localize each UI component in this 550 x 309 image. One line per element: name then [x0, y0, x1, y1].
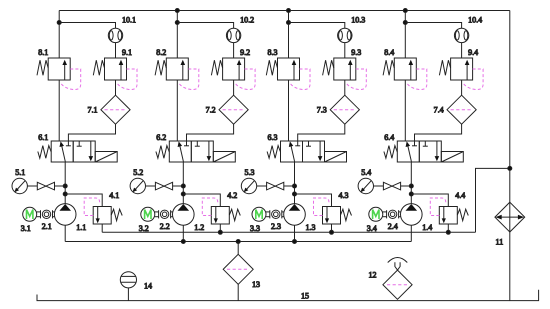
svg-text:7.3: 7.3 [317, 106, 327, 115]
node valve 4.1 tee [63, 192, 67, 196]
node branch junction 3 [287, 21, 291, 25]
wire valve 4.1 to return line [101, 224, 103, 232]
node branch junction 1 [57, 21, 61, 25]
relief valve 8.3 [266, 58, 310, 90]
svg-text:10.4: 10.4 [468, 15, 482, 24]
pump 1.4 [401, 204, 423, 226]
svg-text:4.1: 4.1 [109, 191, 119, 200]
svg-text:2.2: 2.2 [160, 222, 170, 231]
wire valve 6.4 to pump 1.4 [410, 162, 412, 204]
relief valve 8.1 [37, 58, 81, 90]
wire valve 9.4 to filter 7.4 [461, 80, 463, 95]
wire filter 7.4 to valve 6.4 [415, 124, 462, 141]
svg-text:13: 13 [252, 280, 260, 289]
wire gauge 5.4 to shutoff valve [374, 185, 384, 187]
svg-text:9.2: 9.2 [240, 48, 250, 57]
svg-text:2.4: 2.4 [388, 222, 398, 231]
svg-text:15: 15 [301, 292, 309, 301]
level indicator 14 [120, 272, 136, 288]
wire gauge 5.2 to shutoff valve [146, 185, 156, 187]
wire shutoff valve to pump column 1 [55, 185, 66, 187]
filter 7.4 [447, 95, 476, 124]
wire riser 8.4 column [404, 11, 406, 59]
svg-text:1.2: 1.2 [194, 223, 204, 232]
pump 1.2 [173, 204, 195, 226]
flow indicator 10.3 [338, 28, 352, 42]
wire drain return line (valves 4.x) [102, 231, 475, 233]
node valve 4.2 tee [181, 192, 185, 196]
svg-text:8.2: 8.2 [156, 48, 166, 57]
svg-text:12: 12 [369, 271, 377, 280]
wire shutoff valve to pump column 3 [284, 185, 295, 187]
wire gauge 5.3 to shutoff valve [257, 185, 267, 187]
svg-text:8.1: 8.1 [38, 48, 48, 57]
svg-text:7.2: 7.2 [206, 106, 216, 115]
relief valve 4.4 [430, 198, 468, 224]
coupling 2.3 [266, 210, 284, 218]
coupling 2.2 [155, 210, 173, 218]
wire valve 8.2 to valve 6.2 [176, 80, 178, 141]
svg-text:9.4: 9.4 [468, 48, 478, 57]
flow indicator 10.4 [454, 28, 468, 42]
filter 13 [223, 254, 253, 284]
electric motor 3.3 [252, 207, 266, 221]
electric motor 3.2 [141, 207, 155, 221]
svg-text:7.1: 7.1 [88, 106, 98, 115]
solenoid valve 6.1 [38, 141, 117, 162]
wire valve 4.4 to return line [447, 224, 449, 232]
node junction 4.4-return to right line [476, 166, 512, 232]
svg-text:5.1: 5.1 [15, 168, 25, 177]
svg-text:5.3: 5.3 [245, 168, 255, 177]
relief valve 8.2 [155, 58, 199, 90]
node gauge tee 1 [63, 184, 67, 188]
node top bus junction 3 [287, 9, 291, 13]
svg-text:10.3: 10.3 [351, 15, 365, 24]
wire indicator 10.3 to valve 9.3 [344, 43, 346, 58]
wire valve 6.3 to pump 1.3 [294, 162, 296, 204]
svg-text:11: 11 [496, 238, 504, 247]
node valve 4.3 return junction [330, 230, 334, 234]
relief valve 9.3 [323, 58, 367, 90]
svg-text:6.2: 6.2 [156, 133, 166, 142]
svg-text:1.1: 1.1 [76, 223, 86, 232]
electric motor 3.4 [369, 207, 383, 221]
wire gauge 5.1 to shutoff valve [27, 185, 37, 187]
wire pump return bus [65, 241, 411, 243]
wire branch to flow indicator 10.2 [177, 23, 233, 29]
relief valve 4.1 [84, 198, 122, 224]
shutoff valve 4 [383, 182, 400, 190]
coupling 2.1 [37, 210, 55, 218]
wire filter 13 to tank line [237, 284, 239, 300]
wire valve 8.1 to valve 6.1 [58, 80, 60, 141]
node gauge tee 2 [181, 184, 185, 188]
node top bus junction 2 [175, 9, 179, 13]
svg-text:14: 14 [144, 282, 152, 291]
svg-text:6.1: 6.1 [38, 133, 48, 142]
wire pump 1.3 to return bus [294, 225, 296, 241]
shutoff valve 3 [267, 182, 284, 190]
relief valve 9.1 [93, 58, 137, 90]
svg-text:3.1: 3.1 [21, 224, 31, 233]
node gauge tee 3 [293, 184, 297, 188]
wire indicator 14 to tank line [127, 288, 129, 301]
wire valve 6.2 to pump 1.2 [182, 162, 184, 204]
wire valve 9.3 to filter 7.3 [344, 80, 346, 95]
svg-text:1.4: 1.4 [422, 223, 432, 232]
svg-text:8.4: 8.4 [384, 48, 394, 57]
wire pump column to valve 4.3 [295, 194, 332, 207]
svg-text:7.4: 7.4 [434, 106, 444, 115]
wire valve 8.4 to valve 6.4 [404, 80, 406, 141]
wire valve 4.3 to return line [331, 224, 333, 232]
pressure gauge 5.4 [358, 178, 373, 193]
pressure gauge 5.2 [130, 178, 145, 193]
node return bus junction 3 [293, 240, 297, 244]
svg-text:3.2: 3.2 [139, 224, 149, 233]
wire pump 1.4 to return bus [410, 225, 412, 241]
node valve 4.3 tee [293, 192, 297, 196]
wire pump column to valve 4.2 [183, 194, 220, 207]
wire shutoff valve to pump column 4 [401, 185, 412, 187]
node valve 4.4 tee [409, 192, 413, 196]
wire indicator 10.2 to valve 9.2 [233, 43, 235, 58]
wire tank line 15 [37, 290, 539, 301]
svg-text:3.3: 3.3 [250, 224, 260, 233]
filter 7.1 [101, 95, 130, 124]
wire pump 1.2 to return bus [182, 225, 184, 241]
svg-text:2.1: 2.1 [42, 222, 52, 231]
node branch junction 2 [175, 21, 179, 25]
relief valve 8.4 [383, 58, 427, 90]
wire valve 6.1 to pump 1.1 [64, 162, 66, 204]
wire valve 8.3 to valve 6.3 [288, 80, 290, 141]
pump 1.3 [284, 204, 306, 226]
solenoid valve 6.3 [267, 141, 346, 162]
filter 7.3 [330, 95, 359, 124]
wire shutoff valve to pump column 2 [173, 185, 184, 187]
wire top supply bus [59, 10, 510, 12]
wire right-side main line [509, 11, 511, 301]
node gauge tee 4 [409, 184, 413, 188]
wire filter 7.2 to valve 6.2 [187, 124, 234, 141]
wire pump column to valve 4.4 [411, 194, 448, 207]
wire valve 4.2 to return line [219, 224, 221, 232]
node branch junction 4 [403, 21, 407, 25]
check valve manifold 11 [495, 202, 525, 232]
svg-text:6.4: 6.4 [384, 133, 394, 142]
relief valve 4.3 [314, 198, 352, 224]
filter 7.2 [219, 95, 248, 124]
wire pump column to valve 4.1 [65, 194, 102, 207]
wire pump 1.1 to return bus [64, 225, 66, 241]
electric motor 3.1 [23, 207, 37, 221]
node valve 4.4 return junction [446, 230, 450, 234]
svg-text:4.3: 4.3 [339, 191, 349, 200]
svg-text:4.2: 4.2 [227, 191, 237, 200]
pressure gauge 5.3 [241, 178, 256, 193]
node return bus junction 2 [181, 240, 185, 244]
wire valve 9.1 to filter 7.1 [115, 80, 117, 95]
node top bus junction 4 [403, 9, 407, 13]
pressure gauge 5.1 [12, 178, 27, 193]
solenoid valve 6.2 [156, 141, 235, 162]
svg-text:5.2: 5.2 [133, 168, 143, 177]
svg-text:3.4: 3.4 [367, 224, 377, 233]
wire filter 7.3 to valve 6.3 [298, 124, 345, 141]
wire valve 9.2 to filter 7.2 [233, 80, 235, 95]
svg-text:4.4: 4.4 [455, 191, 465, 200]
svg-text:9.1: 9.1 [122, 48, 132, 57]
wire riser 8.2 column [176, 11, 178, 59]
coupling 2.4 [383, 210, 401, 218]
air breather 12 [383, 258, 412, 300]
wire branch to flow indicator 10.1 [59, 23, 115, 29]
node valve 4.2 return junction [218, 230, 222, 234]
flow indicator 10.1 [108, 28, 122, 42]
relief valve 9.4 [439, 58, 483, 90]
shutoff valve 1 [37, 182, 54, 190]
wire branch to flow indicator 10.3 [289, 23, 345, 29]
wire indicator 10.4 to valve 9.4 [461, 43, 463, 58]
flow indicator 10.2 [226, 28, 240, 42]
wire branch to flow indicator 10.4 [405, 23, 461, 29]
shutoff valve 2 [155, 182, 172, 190]
svg-text:10.1: 10.1 [122, 15, 136, 24]
svg-text:8.3: 8.3 [268, 48, 278, 57]
wire riser 8.1 column [58, 11, 60, 59]
solenoid valve 6.4 [384, 141, 463, 162]
relief valve 9.2 [211, 58, 255, 90]
node filter 13 tee [236, 240, 240, 244]
svg-text:2.3: 2.3 [271, 222, 281, 231]
svg-text:5.4: 5.4 [361, 168, 371, 177]
svg-text:6.3: 6.3 [268, 133, 278, 142]
svg-text:10.2: 10.2 [240, 15, 254, 24]
wire indicator 10.1 to valve 9.1 [115, 43, 117, 58]
svg-text:9.3: 9.3 [351, 48, 361, 57]
wire riser 8.3 column [288, 11, 290, 59]
wire return bus to filter 13 [237, 242, 239, 255]
wire filter 7.1 to valve 6.1 [68, 124, 115, 141]
svg-text:1.3: 1.3 [306, 223, 316, 232]
pump 1.1 [54, 204, 76, 226]
relief valve 4.2 [202, 198, 240, 224]
